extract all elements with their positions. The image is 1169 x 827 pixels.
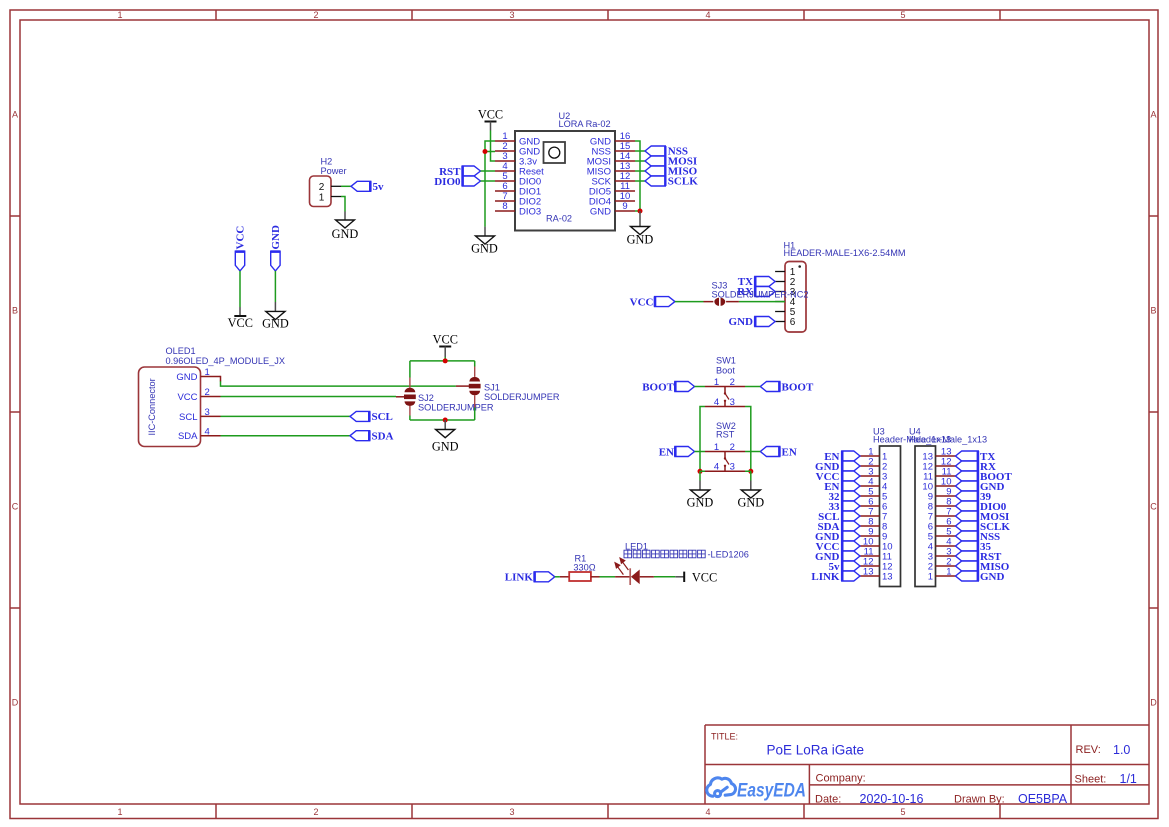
svg-text:1: 1 <box>117 10 122 20</box>
pin 9 U4 <box>928 487 956 503</box>
net flag VCC (U3 pin 10) <box>816 541 860 553</box>
svg-text:GND: GND <box>627 232 654 246</box>
svg-text:REV:: REV: <box>1076 744 1101 756</box>
wire <box>481 180 496 182</box>
svg-text:DIO0: DIO0 <box>434 176 461 188</box>
net flag 5v (U3 pin 12) <box>829 561 861 573</box>
pin 15 U2 <box>591 141 635 157</box>
net flag VCC (vertical) <box>235 226 247 271</box>
pin 5 H1 <box>775 307 796 318</box>
wire OLED VCC to SJ2 <box>221 396 397 398</box>
wire <box>239 271 241 307</box>
net flag BOOT (U4 pin 11) <box>956 471 1013 483</box>
net flag DIO0 <box>434 176 480 188</box>
pin 4 U4 <box>928 537 956 553</box>
pin 5 U3 <box>860 487 887 503</box>
net flag MISO <box>645 166 698 178</box>
wire VCC rail <box>410 357 475 378</box>
svg-text:3: 3 <box>730 397 735 408</box>
svg-text:GND: GND <box>980 571 1005 583</box>
pin 2 U2 <box>495 141 540 157</box>
wire <box>739 301 785 303</box>
svg-text:4: 4 <box>705 10 710 20</box>
power VCC (U2) <box>478 107 503 130</box>
svg-text:SDA: SDA <box>372 430 394 442</box>
svg-text:SCLK: SCLK <box>668 176 698 188</box>
net flag MISO (U4 pin 2) <box>956 561 1010 573</box>
svg-text:1/1: 1/1 <box>1120 772 1137 786</box>
junction <box>443 418 448 423</box>
svg-text:Power: Power <box>321 166 347 176</box>
svg-text:4: 4 <box>714 397 719 408</box>
ground (H2) <box>332 212 359 242</box>
svg-text:0.96OLED_4P_MODULE_JX: 0.96OLED_4P_MODULE_JX <box>166 356 286 366</box>
svg-text:GND: GND <box>262 316 289 330</box>
net flag BOOT (left) <box>642 381 694 393</box>
solder jumper SJ1 <box>469 367 560 408</box>
net flag 5v <box>351 181 384 193</box>
wire <box>675 301 704 303</box>
svg-text:3: 3 <box>509 10 514 20</box>
svg-text:4: 4 <box>205 426 210 437</box>
wire U2 pin16 to pin9 <box>635 141 640 211</box>
svg-text:Drawn By:: Drawn By: <box>954 794 1005 806</box>
svg-text:EN: EN <box>659 446 674 458</box>
ground (below U2 left) <box>471 227 498 256</box>
svg-text:GND: GND <box>687 496 714 510</box>
wire <box>635 170 645 172</box>
pin 8 U4 <box>928 497 956 513</box>
net flag DIO0 (U4 pin 8) <box>956 501 1007 513</box>
net flag TX (U4 pin 13) <box>956 451 996 463</box>
net flag EN (right) <box>760 446 797 458</box>
wire <box>695 451 706 453</box>
wire SCL <box>221 415 351 417</box>
pin 11 U4 <box>923 467 955 483</box>
pin 4 U3 <box>860 477 887 493</box>
junction <box>698 469 703 474</box>
pin 10 U2 <box>589 191 635 207</box>
svg-text:Date:: Date: <box>815 794 841 806</box>
net flag 35 (U4 pin 4) <box>956 541 992 553</box>
svg-text:330Ω: 330Ω <box>573 562 595 572</box>
power VCC <box>228 307 253 330</box>
pin 3 U3 <box>860 467 887 483</box>
svg-text:Company:: Company: <box>816 773 866 785</box>
svg-text:SCL: SCL <box>179 412 197 423</box>
pin 4 OLED1 <box>178 426 221 442</box>
net flag NSS (U4 pin 5) <box>956 531 1001 543</box>
header U3 <box>873 427 951 587</box>
pin 2 U4 <box>928 557 956 573</box>
svg-text:OE5BPA: OE5BPA <box>1018 792 1068 806</box>
svg-text:VCC: VCC <box>478 107 503 121</box>
svg-text:EasyEDA: EasyEDA <box>737 781 806 802</box>
svg-text:D: D <box>12 698 19 708</box>
connector H2 Power <box>310 157 347 207</box>
svg-text:TITLE:: TITLE: <box>711 732 738 742</box>
svg-text:2: 2 <box>730 377 735 388</box>
svg-text:RST: RST <box>716 430 735 440</box>
net flag GND (H1) <box>729 316 776 328</box>
wire <box>635 160 645 162</box>
pin 9 U3 <box>860 527 887 543</box>
net flag BOOT (right) <box>760 381 814 393</box>
net flag NSS <box>645 146 688 158</box>
pin 2 H1 <box>775 277 796 288</box>
pin 7 U2 <box>495 191 541 207</box>
switch SW2 RST <box>705 421 745 473</box>
LED LED1 <box>615 541 749 585</box>
svg-text:B: B <box>1150 306 1156 316</box>
flag bar <box>664 146 666 186</box>
net flag GND (U3 pin 2) <box>815 461 860 473</box>
svg-text:GND: GND <box>176 372 197 383</box>
net flag SCL (U3 pin 7) <box>818 511 860 523</box>
wire <box>341 197 345 212</box>
solder jumper SJ2 <box>404 378 494 416</box>
net flag VCC (U3 pin 3) <box>816 471 860 483</box>
svg-text:GND: GND <box>332 227 359 241</box>
svg-text:9: 9 <box>622 201 627 212</box>
net flag VCC (H1) <box>630 297 675 309</box>
svg-text:VCC: VCC <box>177 392 197 403</box>
svg-text:PoE LoRa iGate: PoE LoRa iGate <box>767 743 865 758</box>
pin 10 U4 <box>922 477 955 493</box>
svg-text:1.0: 1.0 <box>1113 743 1130 757</box>
pin 2 H2 <box>331 185 341 187</box>
svg-text:3: 3 <box>509 807 514 817</box>
svg-text:GND: GND <box>471 242 498 256</box>
pin 12 U3 <box>860 557 893 573</box>
pin 3 U4 <box>928 547 956 563</box>
svg-text:A: A <box>1150 110 1156 120</box>
net flag SDA <box>350 430 394 442</box>
svg-text:Header-Male_1x13: Header-Male_1x13 <box>909 435 987 445</box>
net flag 33 (U3 pin 6) <box>829 501 861 513</box>
ground (below U2 right) <box>627 211 654 246</box>
wire <box>654 576 675 578</box>
svg-text:GND: GND <box>432 440 459 454</box>
svg-text:1: 1 <box>205 367 210 378</box>
net flag EN (U3 pin 4) <box>824 481 860 493</box>
pin 1 U3 <box>860 447 887 463</box>
pin 6 U2 <box>495 181 541 197</box>
wire <box>745 451 760 453</box>
svg-text:1: 1 <box>714 377 719 388</box>
wire SDA <box>221 435 351 437</box>
net flag RST <box>439 166 480 178</box>
net flag SDA (U3 pin 8) <box>817 521 860 533</box>
net flag 39 (U4 pin 9) <box>956 491 992 503</box>
net flag SCLK <box>645 176 698 188</box>
svg-text:3: 3 <box>205 407 210 418</box>
net flag MOSI (U4 pin 7) <box>956 511 1010 523</box>
svg-text:OLED1: OLED1 <box>166 346 196 356</box>
ground (SW left) <box>687 481 714 510</box>
wire VCC to U2 pin3 <box>491 131 496 162</box>
svg-text:4: 4 <box>705 807 710 817</box>
svg-text:VCC: VCC <box>433 333 458 347</box>
wire OLED GND to SJ1 <box>221 381 456 386</box>
svg-text:GND: GND <box>737 496 764 510</box>
net flag GND (U3 pin 9) <box>815 531 860 543</box>
wire <box>635 180 645 182</box>
svg-text:5: 5 <box>900 807 905 817</box>
pin 10 U3 <box>860 537 893 553</box>
net flag RX <box>737 286 775 298</box>
net flag GND (U4 pin 10) <box>956 481 1005 493</box>
svg-text:Boot: Boot <box>716 365 735 375</box>
wire <box>695 386 706 388</box>
svg-text:A: A <box>12 110 18 120</box>
junction <box>443 358 448 363</box>
ground <box>262 302 289 330</box>
power VCC (LED) <box>675 570 717 584</box>
junction <box>483 149 488 154</box>
pin 6 H1 <box>775 317 796 328</box>
net flag EN (left) <box>659 446 695 458</box>
pin 8 U2 <box>495 201 541 217</box>
wire GND rail <box>410 408 475 422</box>
pin 13 U2 <box>587 161 635 177</box>
svg-text:VCC: VCC <box>228 316 253 330</box>
net flag SCL <box>350 411 393 423</box>
net flag TX <box>738 276 775 288</box>
svg-text:1: 1 <box>946 567 951 578</box>
wire <box>220 376 222 382</box>
svg-text:5: 5 <box>900 10 905 20</box>
svg-text:4: 4 <box>714 462 719 473</box>
wire <box>600 576 616 578</box>
pin 1 U4 <box>928 567 956 583</box>
net flag GND (U4 pin 1) <box>956 571 1005 583</box>
pin 4 U2 <box>495 161 544 177</box>
svg-text:C: C <box>12 502 19 512</box>
wire <box>700 471 751 480</box>
pin 3 U2 <box>495 151 537 167</box>
pin 7 U4 <box>928 507 956 523</box>
solder jumper SJ3 <box>704 280 809 306</box>
svg-text:1: 1 <box>319 192 325 203</box>
svg-text:5v: 5v <box>373 181 385 193</box>
title block <box>705 725 1149 806</box>
pin 3 OLED1 <box>179 407 220 423</box>
svg-text:GND: GND <box>590 206 611 217</box>
svg-text:6: 6 <box>790 317 796 328</box>
svg-text:13: 13 <box>882 571 893 582</box>
pin 6 U3 <box>860 497 887 513</box>
wire <box>555 576 560 578</box>
resistor R1 330R <box>560 553 600 581</box>
net flag LINK (U3 pin 13) <box>811 571 860 583</box>
module U2 LORA Ra-02 <box>515 111 615 231</box>
net flag GND (U3 pin 11) <box>815 551 860 563</box>
wire SW1 to SW2 rails <box>700 407 751 472</box>
module OLED1 IIC-Connector <box>139 346 286 447</box>
net flag SCLK (U4 pin 6) <box>956 521 1011 533</box>
pin 4 H1 <box>775 297 796 308</box>
svg-text:VCC: VCC <box>235 226 247 250</box>
SJ1 middle pin <box>456 385 469 387</box>
pin 14 U2 <box>587 151 635 167</box>
svg-text:LORA Ra-02: LORA Ra-02 <box>559 119 611 129</box>
SJ2 middle pin <box>396 396 404 398</box>
connector H1 HEADER-MALE-1X6 <box>784 241 906 333</box>
svg-text:3: 3 <box>730 462 735 473</box>
svg-text:LINK: LINK <box>505 572 534 584</box>
pin 8 U3 <box>860 517 887 533</box>
svg-text:SDA: SDA <box>178 431 198 442</box>
svg-text:2: 2 <box>313 10 318 20</box>
svg-text:BOOT: BOOT <box>782 381 814 393</box>
pin 2 U3 <box>860 457 887 473</box>
net flag RST (U4 pin 3) <box>956 551 1003 563</box>
svg-text:Sheet:: Sheet: <box>1075 774 1107 786</box>
ground (SW right) <box>737 481 764 510</box>
svg-text:2: 2 <box>730 442 735 453</box>
pin 3 H1 <box>775 287 796 298</box>
net flag RX (U4 pin 12) <box>956 461 996 473</box>
pin 1 H2 <box>331 196 341 198</box>
svg-text:1: 1 <box>117 807 122 817</box>
svg-text:HEADER-MALE-1X6-2.54MM: HEADER-MALE-1X6-2.54MM <box>784 248 906 258</box>
junction <box>748 469 753 474</box>
svg-text:2: 2 <box>313 807 318 817</box>
pin 12 U4 <box>922 457 955 473</box>
net flag EN (U3 pin 1) <box>824 451 860 463</box>
svg-text:8: 8 <box>502 201 507 212</box>
svg-text:IIC-Connector: IIC-Connector <box>147 378 157 435</box>
wire GND net U2 pins 1-2 <box>485 141 495 227</box>
wire <box>341 185 351 187</box>
svg-text:-LED1206: -LED1206 <box>708 550 749 560</box>
svg-text:GND: GND <box>270 225 282 250</box>
svg-text:2020-10-16: 2020-10-16 <box>860 792 924 806</box>
pin 9 U2 <box>590 201 635 217</box>
svg-text:SOLDERJUMPER-NC2: SOLDERJUMPER-NC2 <box>712 290 809 300</box>
svg-text:2: 2 <box>205 387 210 398</box>
pin 5 U4 <box>928 527 956 543</box>
pin 11 U2 <box>589 181 635 197</box>
wire <box>274 271 276 302</box>
wire <box>745 386 760 388</box>
svg-text:13: 13 <box>863 567 874 578</box>
net flag LINK <box>505 572 555 584</box>
wire <box>635 150 645 152</box>
svg-text:B: B <box>12 306 18 316</box>
svg-text:C: C <box>1150 502 1157 512</box>
svg-text:1: 1 <box>928 571 933 582</box>
net flag MOSI <box>645 156 697 168</box>
ground (SJ) <box>432 420 459 454</box>
pin 5 U2 <box>495 171 541 187</box>
pin 1 U2 <box>495 131 540 147</box>
pin 16 U2 <box>590 131 635 147</box>
svg-text:GND: GND <box>729 316 754 328</box>
svg-text:VCC: VCC <box>630 297 654 309</box>
switch SW1 Boot <box>705 356 745 408</box>
pin 2 OLED1 <box>177 387 220 403</box>
pin 13 U3 <box>860 567 893 583</box>
wire <box>481 170 496 172</box>
svg-text:RA-02: RA-02 <box>546 214 572 224</box>
net flag GND (vertical) <box>270 225 282 271</box>
svg-text:SOLDERJUMPER: SOLDERJUMPER <box>418 402 494 412</box>
power VCC (SJ) <box>433 333 458 358</box>
junction <box>638 209 643 214</box>
pin 11 U3 <box>860 547 892 563</box>
svg-text:SW1: SW1 <box>716 356 736 366</box>
pin 13 U4 <box>922 447 955 463</box>
svg-text:DIO3: DIO3 <box>519 206 541 217</box>
svg-text:SOLDERJUMPER: SOLDERJUMPER <box>484 392 560 402</box>
pin 1 OLED1 <box>176 367 220 383</box>
svg-text:EN: EN <box>782 446 797 458</box>
pin 6 U4 <box>928 517 956 533</box>
svg-text:2: 2 <box>319 182 325 193</box>
svg-text:SCL: SCL <box>372 411 393 423</box>
net flag 32 (U3 pin 5) <box>829 491 861 503</box>
svg-text:BOOT: BOOT <box>642 381 674 393</box>
svg-text:VCC: VCC <box>692 570 717 584</box>
svg-text:1: 1 <box>714 442 719 453</box>
pin 7 U3 <box>860 507 887 523</box>
pin 12 U2 <box>591 171 635 187</box>
svg-text:LINK: LINK <box>811 571 840 583</box>
pin 1 H1 <box>775 267 796 278</box>
header U4 <box>909 427 987 587</box>
svg-text:D: D <box>1150 698 1157 708</box>
